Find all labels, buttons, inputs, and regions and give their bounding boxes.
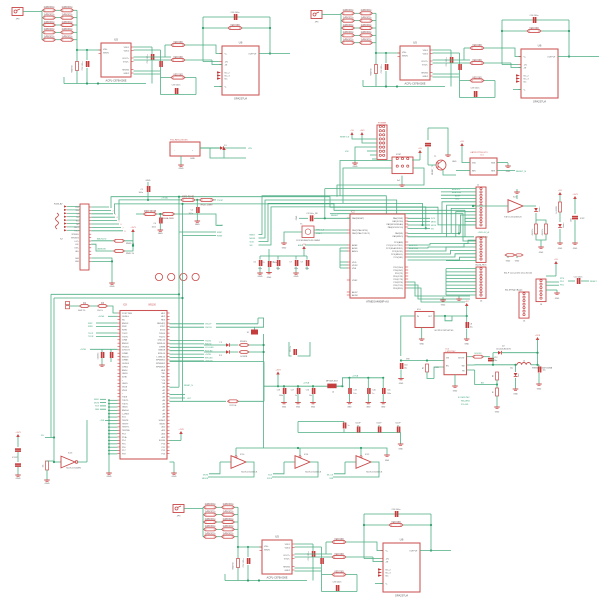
svg-text:10n: 10n	[494, 360, 497, 362]
svg-text:5x2: 5x2	[397, 180, 401, 182]
svg-text:VDD1: VDD1	[285, 544, 291, 546]
svg-text:PD1(TXD): PD1(TXD)	[393, 285, 403, 287]
svg-text:1kRN0D1k: 1kRN0D1k	[222, 504, 234, 506]
svg-text:GND: GND	[366, 407, 371, 409]
svg-text:1VB88: 1VB88	[159, 346, 166, 348]
svg-text:10k: 10k	[43, 464, 45, 467]
svg-text:VDD: VDD	[352, 262, 357, 264]
svg-text:XTLP: XTLP	[160, 326, 166, 328]
svg-text:W5100: W5100	[148, 304, 156, 307]
svg-text:VED/26D: VED/26D	[472, 77, 482, 79]
svg-text:GND: GND	[347, 407, 352, 409]
svg-text:1kRN0D1k: 1kRN0D1k	[204, 511, 216, 513]
svg-text:GND: GND	[267, 277, 272, 279]
svg-text:SCK8: SCK8	[267, 478, 272, 480]
svg-text:NC_3: NC_3	[225, 75, 231, 77]
svg-text:BND08: BND08	[159, 350, 166, 352]
svg-text:1kRN0D1k: 1kRN0D1k	[61, 37, 73, 39]
svg-text:VED/26D: VED/26D	[334, 554, 344, 556]
svg-text:NC: NC	[76, 224, 79, 226]
svg-text:10u: 10u	[404, 368, 407, 370]
svg-text:C32 100n: C32 100n	[82, 62, 84, 71]
svg-text:TXD8: TXD8	[122, 397, 128, 399]
svg-text:TXD7L: TXD7L	[122, 403, 129, 405]
svg-text:BOOST: BOOST	[458, 358, 465, 360]
svg-text:PA1(XCK0): PA1(XCK0)	[392, 220, 403, 223]
svg-text:GND: GND	[399, 383, 404, 385]
svg-text:GND: GND	[282, 407, 287, 409]
svg-text:SHDN2: SHDN2	[421, 72, 429, 74]
svg-text:GND0: GND0	[122, 407, 128, 409]
svg-text:PC2(SDA1/RXD1): PC2(SDA1/RXD1)	[386, 247, 403, 250]
svg-text:J4: J4	[540, 304, 543, 306]
svg-text:*RD: *RD	[161, 373, 165, 375]
svg-text:VDD2: VDD2	[285, 547, 291, 549]
svg-text:1kRN0D1k: 1kRN0D1k	[360, 40, 372, 42]
svg-text:1kRN0D1k: 1kRN0D1k	[204, 504, 216, 506]
svg-text:1kRN0D1k: 1kRN0D1k	[204, 526, 216, 528]
svg-text:IC5P: IC5P	[580, 218, 585, 220]
svg-text:IC12: IC12	[365, 454, 370, 456]
svg-text:GND: GND	[296, 215, 298, 220]
svg-text:SHDN: SHDN	[402, 56, 408, 58]
svg-text:JP3: JP3	[315, 22, 320, 24]
svg-text:V-: V-	[225, 86, 227, 88]
svg-text:SPDMDG: SPDMDG	[71, 237, 79, 239]
svg-text:74LVC1G14DBV: 74LVC1G14DBV	[66, 468, 82, 470]
svg-text:GND: GND	[282, 248, 287, 250]
svg-text:GND: GND	[452, 161, 457, 163]
svg-text:J3: J3	[480, 301, 483, 303]
svg-text:JP3: JP3	[16, 19, 21, 21]
svg-text:PC1(SCL1/TXD1): PC1(SCL1/TXD1)	[386, 245, 403, 247]
svg-text:LANKLED: LANKLED	[97, 248, 107, 251]
svg-text:6: 6	[121, 224, 122, 226]
svg-text:LNK-: LNK-	[75, 251, 79, 253]
svg-text:IC11P: IC11P	[376, 423, 382, 425]
svg-text:MISO: MISO	[431, 222, 437, 224]
svg-text:PS1-REG-XXXXX: PS1-REG-XXXXX	[170, 140, 188, 142]
svg-text:1VBB5: 1VBB5	[122, 360, 129, 362]
svg-text:10u: 10u	[543, 370, 546, 372]
svg-text:COLLLED: COLLLED	[205, 347, 214, 349]
svg-text:C3 100n_NV: C3 100n_NV	[306, 213, 318, 215]
svg-text:GND: GND	[573, 248, 578, 250]
svg-text:VIN: VIN	[406, 358, 410, 360]
svg-text:5: 5	[119, 221, 120, 223]
svg-text:CT: CT	[77, 214, 80, 216]
svg-text:VED/7D: VED/7D	[233, 562, 235, 570]
svg-text:C12: C12	[494, 357, 497, 359]
svg-text:ADB/SCL: ADB/SCL	[409, 244, 418, 247]
svg-text:OUTPUT: OUTPUT	[547, 56, 556, 58]
svg-text:DSLL00: DSLL00	[158, 340, 166, 342]
svg-text:VDD2: VDD2	[352, 265, 358, 267]
svg-text:RXIN: RXIN	[88, 326, 93, 328]
svg-text:U5: U5	[413, 41, 417, 45]
svg-text:+2V5B: +2V5B	[80, 349, 86, 351]
svg-text:SS8: SS8	[329, 478, 333, 480]
svg-text:PA2(MOSI/SDA0): PA2(MOSI/SDA0)	[387, 223, 404, 226]
svg-text:RXCT: RXCT	[74, 227, 80, 229]
svg-text:RESET_N: RESET_N	[516, 171, 527, 173]
svg-text:GND: GND	[146, 180, 151, 182]
svg-text:U6: U6	[400, 538, 404, 542]
svg-text:C19: C19	[353, 390, 356, 392]
svg-text:T1: T1	[434, 156, 437, 158]
svg-text:TESTML: TESTML	[122, 430, 131, 432]
svg-text:IC12P: IC12P	[395, 423, 401, 425]
svg-text:PD3(CTS): PD3(CTS)	[393, 279, 403, 281]
svg-text:PA1(XTAL/UPDI): PA1(XTAL/UPDI)	[352, 229, 368, 232]
svg-text:SC080: SC080	[159, 440, 166, 442]
svg-text:+IN: +IN	[386, 558, 390, 560]
svg-text:RB=18K8: RB=18K8	[461, 401, 471, 403]
svg-text:C1: C1	[140, 189, 143, 191]
svg-text:GND: GND	[398, 449, 403, 451]
svg-text:VOUT+: VOUT+	[122, 58, 130, 60]
svg-text:VD09: VD09	[122, 390, 128, 392]
svg-text:J1: J1	[477, 185, 480, 187]
svg-text:TEST9: TEST9	[122, 423, 129, 425]
svg-text:RXIP: RXIP	[217, 232, 223, 234]
svg-text:TD-: TD-	[76, 217, 79, 219]
svg-text:C17: C17	[291, 390, 294, 392]
svg-text:S1: S1	[247, 332, 249, 334]
svg-text:TXLE0: TXLE0	[159, 333, 166, 335]
svg-text:1u: 1u	[348, 425, 350, 427]
svg-text:49R9 RN4D: 49R9 RN4D	[182, 197, 195, 199]
svg-text:NC_2: NC_2	[386, 569, 392, 571]
svg-text:GND: GND	[513, 394, 518, 396]
svg-text:GND: GND	[296, 407, 301, 409]
svg-text:GND: GND	[385, 460, 390, 462]
svg-text:GND: GND	[506, 261, 511, 263]
svg-text:PD7(CH0): PD7(CH0)	[393, 267, 403, 269]
svg-text:GND: GND	[195, 224, 200, 226]
svg-text:GND: GND	[294, 276, 299, 278]
svg-text:VED/26D: VED/26D	[529, 28, 539, 30]
svg-text:RD-: RD-	[76, 210, 80, 212]
svg-text:RN2A 1k: RN2A 1k	[240, 340, 247, 343]
svg-text:IC8: IC8	[123, 304, 127, 307]
svg-text:C34 100n: C34 100n	[446, 58, 448, 67]
svg-text:R5: R5	[423, 367, 425, 369]
svg-text:PC4(MISO1): PC4(MISO1)	[391, 254, 403, 256]
svg-text:7: 7	[123, 227, 124, 229]
svg-text:V-: V-	[386, 583, 388, 585]
svg-text:OPA237UA: OPA237UA	[234, 97, 247, 101]
svg-text:SHDN2: SHDN2	[283, 566, 291, 568]
svg-text:MISO8: MISO8	[202, 478, 208, 480]
svg-text:RXIN: RXIN	[122, 330, 127, 332]
svg-text:PA3(SCK/SCL0): PA3(SCK/SCL0)	[388, 226, 404, 229]
svg-text:SHDN2: SHDN2	[122, 69, 130, 71]
svg-text:GND: GND	[179, 168, 184, 170]
svg-text:OPA237UA: OPA237UA	[533, 100, 546, 104]
svg-text:+2V5A: +2V5A	[352, 374, 359, 377]
svg-text:SPDLED: SPDLED	[205, 357, 213, 359]
svg-text:+3V3/+5V_A: +3V3/+5V_A	[478, 231, 490, 234]
svg-text:C32 100n: C32 100n	[243, 559, 245, 568]
svg-text:VOUT+: VOUT+	[421, 61, 429, 63]
svg-text:SCK: SCK	[250, 241, 255, 243]
svg-text:GV/BLL: GV/BLL	[122, 316, 130, 318]
svg-text:GND2: GND2	[284, 570, 290, 572]
svg-text:1kRN0D1k: 1kRN0D1k	[61, 29, 73, 31]
svg-text:U6: U6	[538, 44, 542, 48]
svg-text:GND: GND	[555, 298, 560, 300]
svg-text:PA4(SS): PA4(SS)	[395, 232, 403, 235]
svg-text:RESET_N: RESET_N	[340, 137, 350, 139]
svg-text:VDD: VDD	[472, 163, 477, 165]
svg-text:GND: GND	[75, 261, 80, 263]
svg-text:C36 100n: C36 100n	[530, 15, 539, 17]
svg-text:C38 100n: C38 100n	[471, 88, 480, 90]
svg-text:BND04: BND04	[122, 410, 129, 412]
svg-text:TXOP: TXOP	[217, 200, 223, 202]
svg-text:C18: C18	[277, 390, 280, 392]
svg-text:L2: L2	[523, 361, 526, 363]
svg-text:OSC1N: OSC1N	[205, 327, 212, 329]
svg-text:MP2009-300Y: MP2009-300Y	[326, 381, 339, 383]
svg-text:PA2(XTAL/TOSC2): PA2(XTAL/TOSC2)	[352, 232, 370, 235]
svg-text:L1NKL00: L1NKL00	[157, 356, 166, 358]
svg-text:C10: C10	[404, 365, 407, 367]
svg-text:1kRN0D1k: 1kRN0D1k	[222, 519, 234, 521]
svg-text:BND4: BND4	[122, 370, 128, 372]
svg-text:1V8A: 1V8A	[122, 339, 128, 342]
svg-text:RN4A 49R9: RN4A 49R9	[162, 217, 174, 220]
svg-text:GND: GND	[110, 286, 115, 288]
svg-text:MISO: MISO	[94, 399, 99, 401]
svg-text:1kRN0D1k: 1kRN0D1k	[204, 534, 216, 536]
svg-text:SHDN: SHDN	[103, 53, 109, 55]
svg-text:C13 10u: C13 10u	[98, 353, 100, 359]
svg-text:IF LM317MV: IF LM317MV	[458, 397, 470, 399]
svg-text:VED/26D: VED/26D	[173, 74, 183, 76]
svg-text:GND: GND	[495, 412, 500, 414]
svg-text:PD4(DTR): PD4(DTR)	[393, 276, 403, 278]
svg-text:POWER: POWER	[378, 123, 387, 125]
svg-text:IC13P: IC13P	[12, 457, 18, 459]
svg-text:VIN: VIN	[345, 151, 349, 153]
svg-text:SS: SS	[431, 228, 434, 230]
svg-text:+5V: +5V	[465, 301, 469, 303]
svg-text:VDD2: VDD2	[124, 50, 130, 52]
svg-text:SS: SS	[41, 435, 44, 437]
svg-text:XTLN: XTLN	[160, 330, 166, 332]
svg-text:C40: C40	[372, 390, 375, 392]
svg-text:CAT811TTBI-GT3: CAT811TTBI-GT3	[470, 151, 488, 154]
svg-text:+1V8: +1V8	[178, 429, 184, 431]
svg-text:GVDD1: GVDD1	[122, 346, 130, 348]
svg-text:GND: GND	[506, 171, 511, 173]
svg-text:2V5OUT: 2V5OUT	[122, 350, 131, 352]
svg-text:1kRN0D1k: 1kRN0D1k	[222, 534, 234, 536]
svg-text:+5V: +5V	[350, 130, 354, 132]
svg-text:GND5: GND5	[122, 383, 128, 385]
svg-text:SHD: SHD	[75, 258, 79, 260]
svg-text:ACPL-C87B-000E: ACPL-C87B-000E	[105, 79, 126, 83]
svg-text:T.X: T.X	[219, 342, 222, 344]
svg-text:1k RN2B: 1k RN2B	[240, 356, 248, 358]
svg-text:1kRN0D1k: 1kRN0D1k	[204, 519, 216, 521]
svg-text:VDD1: VDD1	[124, 47, 130, 49]
svg-text:GND9: GND9	[122, 373, 128, 375]
svg-text:LGT+: LGT+	[74, 241, 79, 243]
svg-text:IC1: IC1	[480, 155, 484, 157]
svg-text:J5: J5	[523, 320, 526, 322]
svg-text:1kRN0D1k: 1kRN0D1k	[61, 14, 73, 16]
svg-text:+3V3: +3V3	[15, 432, 21, 434]
svg-text:SPW0801: SPW0801	[156, 360, 166, 362]
svg-text:ADD8: ADD8	[352, 294, 358, 297]
svg-text:GND: GND	[558, 248, 563, 250]
svg-text:1kRN0D1k: 1kRN0D1k	[360, 10, 372, 12]
svg-text:TXOP: TXOP	[88, 333, 94, 335]
svg-text:RESET: RESET	[331, 215, 339, 217]
svg-text:SS: SS	[250, 245, 253, 247]
svg-text:1kRN0D1k: 1kRN0D1k	[61, 7, 73, 9]
svg-text:49R9 1k: 49R9 1k	[542, 229, 544, 236]
svg-text:R12 10k: R12 10k	[230, 405, 237, 407]
svg-text:TXOP: TXOP	[122, 333, 128, 335]
svg-text:SW: SW	[462, 366, 465, 368]
svg-text:VED/26D: VED/26D	[472, 45, 482, 47]
svg-text:+3V3: +3V3	[360, 130, 366, 132]
svg-text:+3V3A: +3V3A	[98, 315, 104, 318]
svg-text:VOUT-: VOUT-	[422, 64, 428, 66]
svg-text:10u: 10u	[470, 327, 473, 329]
svg-text:+5V: +5V	[558, 190, 562, 192]
svg-text:+5V: +5V	[554, 259, 558, 261]
svg-text:100n: 100n	[152, 226, 156, 228]
svg-text:RXIP: RXIP	[88, 323, 93, 325]
svg-text:GND: GND	[258, 276, 263, 278]
svg-text:GND: GND	[311, 407, 316, 409]
svg-text:BND4(2): BND4(2)	[157, 323, 165, 325]
svg-text:MISO: MISO	[250, 234, 256, 236]
svg-text:BND41: BND41	[122, 323, 129, 325]
svg-text:C36 100n: C36 100n	[392, 509, 401, 511]
svg-text:300R 1%: 300R 1%	[78, 310, 86, 312]
svg-text:10u: 10u	[309, 395, 312, 397]
svg-text:OUTPUT: OUTPUT	[248, 53, 257, 55]
svg-text:R7=10K: R7=10K	[461, 404, 469, 406]
svg-text:+5V: +5V	[460, 141, 464, 143]
svg-text:VOUT-: VOUT-	[284, 558, 290, 560]
svg-text:VED/7D: VED/7D	[371, 68, 373, 76]
svg-text:1kRN0D1k: 1kRN0D1k	[342, 40, 354, 42]
svg-text:ATMEGA4808P-AU: ATMEGA4808P-AU	[366, 300, 389, 304]
svg-text:C36 100n: C36 100n	[231, 12, 240, 14]
svg-text:SCK: SCK	[95, 406, 100, 408]
svg-text:100n: 100n	[139, 192, 143, 194]
svg-text:NC_3: NC_3	[386, 572, 392, 574]
svg-text:1kRN0D1k: 1kRN0D1k	[360, 17, 372, 19]
svg-text:GND: GND	[190, 158, 195, 160]
svg-text:C16: C16	[306, 390, 309, 392]
svg-text:1kRN0D1k: 1kRN0D1k	[222, 526, 234, 528]
svg-text:C9: C9	[300, 262, 302, 264]
svg-text:IC2: IC2	[351, 211, 355, 214]
svg-text:PA0(RESET): PA0(RESET)	[352, 217, 364, 220]
svg-text:Green: Green	[562, 223, 565, 228]
svg-text:GND: GND	[381, 407, 386, 409]
svg-text:VED/26D: VED/26D	[391, 522, 401, 524]
svg-text:+3V3: +3V3	[572, 194, 578, 196]
svg-text:JP3: JP3	[177, 516, 182, 518]
svg-text:100n: 100n	[279, 395, 283, 397]
svg-text:SPW0802: SPW0802	[156, 363, 166, 365]
svg-text:PD1: PD1	[560, 281, 565, 283]
svg-text:1kRN0D1k: 1kRN0D1k	[342, 25, 354, 27]
svg-text:+5V: +5V	[418, 148, 422, 150]
svg-text:C6: C6	[253, 262, 255, 264]
svg-text:+3V3: +3V3	[130, 227, 136, 229]
svg-text:3: 3	[115, 214, 116, 216]
svg-text:1u: 1u	[372, 393, 374, 395]
svg-text:1VBB1: 1VBB1	[122, 353, 129, 355]
svg-text:C38 100n: C38 100n	[172, 85, 181, 87]
svg-text:L4: L4	[332, 391, 334, 393]
svg-text:LM317MV: LM317MV	[446, 351, 457, 353]
svg-text:GND2: GND2	[123, 73, 129, 75]
svg-text:49R9 1k: 49R9 1k	[532, 229, 534, 236]
svg-text:74LVC1G125DCK: 74LVC1G125DCK	[241, 472, 258, 474]
svg-text:VIN: VIN	[248, 148, 252, 150]
svg-text:1u: 1u	[295, 395, 297, 397]
svg-text:GND: GND	[455, 199, 460, 201]
svg-text:PC3(SCK1): PC3(SCK1)	[392, 251, 403, 253]
svg-text:100n: 100n	[387, 393, 391, 395]
svg-text:LNK+: LNK+	[74, 248, 79, 250]
svg-text:RN3C 1k: RN3C 1k	[126, 253, 134, 255]
svg-text:MD81: MD81	[160, 423, 166, 425]
svg-text:1kRN0D1k: 1kRN0D1k	[61, 22, 73, 24]
svg-text:SP0L00: SP0L00	[158, 353, 166, 355]
svg-text:D1: D1	[224, 145, 227, 147]
svg-text:+3V3: +3V3	[275, 370, 281, 372]
svg-text:NC_3: NC_3	[524, 78, 530, 80]
svg-text:3V3D: 3V3D	[122, 376, 128, 378]
svg-text:TXON: TXON	[122, 336, 128, 338]
svg-text:RXIN: RXIN	[217, 235, 223, 237]
svg-text:PD2(RTS): PD2(RTS)	[393, 282, 403, 284]
svg-text:GND2: GND2	[422, 76, 428, 78]
svg-text:IC3: IC3	[513, 197, 517, 199]
svg-text:VED/26D: VED/26D	[173, 42, 183, 44]
svg-text:1kRN0D1k: 1kRN0D1k	[43, 37, 55, 39]
svg-text:V-: V-	[524, 89, 526, 91]
svg-text:IC4: IC4	[417, 309, 421, 311]
svg-text:TD+: TD+	[76, 220, 79, 222]
svg-text:VD08: VD08	[122, 387, 128, 389]
svg-text:VED/26D: VED/26D	[334, 539, 344, 541]
svg-text:10u: 10u	[353, 393, 356, 395]
svg-text:Green: Green	[538, 207, 541, 212]
svg-text:VDD2: VDD2	[423, 53, 429, 55]
svg-text:2: 2	[113, 210, 114, 212]
svg-text:VED/26D: VED/26D	[472, 60, 482, 62]
svg-text:+3V3: +3V3	[535, 335, 541, 337]
svg-text:PD1: PD1	[76, 207, 80, 209]
svg-text:RESET_N: RESET_N	[184, 385, 193, 387]
svg-text:VOUT+: VOUT+	[283, 555, 291, 557]
svg-text:MOSI: MOSI	[250, 238, 256, 240]
svg-text:GND: GND	[515, 261, 520, 263]
